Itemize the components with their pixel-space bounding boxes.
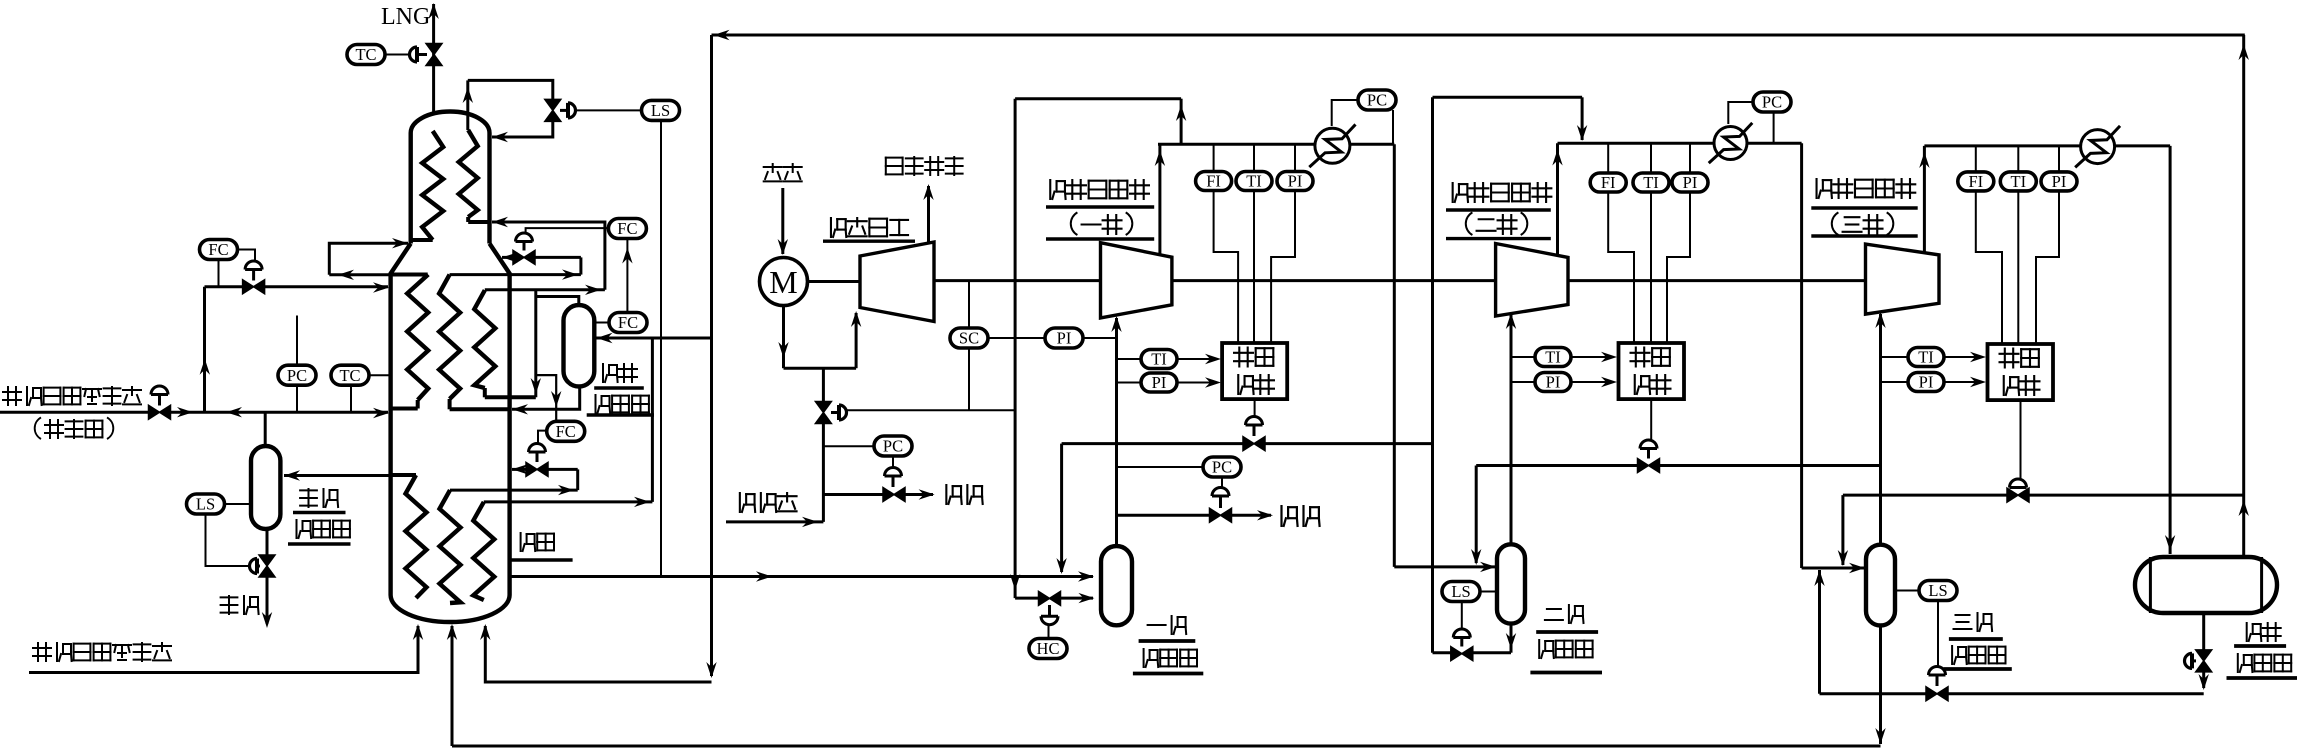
instrument bubble PI (suction1) — [1117, 382, 1142, 384]
svg-text:PI: PI — [1288, 172, 1303, 191]
vessel: refrigerant separator drum (right) — [2135, 557, 2277, 613]
wire: LS to drain valve — [206, 514, 251, 566]
text: right drum label — [2247, 623, 2262, 641]
vessel: 2nd stage separator drum2 — [1497, 544, 1525, 623]
wire: bottom right coil to refrigerant separator riser — [484, 500, 653, 503]
valve: startup FC valve — [245, 261, 262, 270]
wire: motor air loop down to turbine inlet — [782, 306, 785, 369]
text: heavy HC label — [221, 596, 238, 614]
wire: drum3 bottoms to bottom return line — [1879, 626, 1882, 745]
text: drum3 label — [1954, 615, 1972, 629]
wire: vapor return from column to separator — [284, 474, 391, 477]
wire: refrigerant separator drain — [512, 387, 580, 410]
wire: top coil vapor to LS valve loop — [466, 80, 469, 130]
coil: middle section left — [392, 273, 428, 277]
anti-surge control box stage1 — [1222, 343, 1287, 399]
wire: LS valve return into dome — [492, 120, 553, 137]
svg-text:LS: LS — [196, 495, 215, 514]
svg-text:PI: PI — [1683, 173, 1698, 192]
svg-text:LNG: LNG — [381, 4, 430, 30]
coil: top section left — [422, 131, 443, 240]
svg-text:FC: FC — [556, 422, 576, 441]
wire: main shaft turbine to C1 — [934, 279, 1101, 282]
wire: FC valve line to startup riser — [205, 285, 244, 288]
instrument bubble FC (refrigerant separator) — [609, 313, 647, 333]
vessel: refrigerant separator (left) — [564, 305, 595, 387]
wire: recycle drop to drum1 feed — [1060, 444, 1063, 572]
text: flare label (fuel) — [946, 485, 961, 504]
wire: FC to valve actuator — [538, 431, 547, 443]
wire: TC stubs — [368, 374, 391, 376]
wire: air inlet — [781, 188, 784, 254]
text: flare label (stage1) — [1282, 506, 1298, 526]
wire: center coil recycle upper loop — [450, 273, 581, 276]
text: gas turbine label — [831, 218, 846, 237]
valve: anti-surge valve stage3 — [2020, 400, 2022, 479]
anti-surge control box stage3 — [1988, 344, 2054, 400]
text: purified natural gas (startup) label — [3, 387, 21, 405]
wire: anti-surge recycle line stage2 — [1476, 464, 1638, 467]
wire: recycle drop to drum3 feed — [1841, 495, 1844, 565]
wire: LNG outlet riser — [432, 4, 435, 113]
svg-text:HC: HC — [1037, 639, 1060, 658]
svg-text:TI: TI — [1151, 350, 1167, 369]
wire: stage2 discharge header — [1558, 142, 1715, 145]
wire: bottom natural gas feed — [29, 626, 418, 673]
wire: header3 drop to right drum — [2169, 146, 2172, 554]
wire: big recycle downcomer — [710, 35, 713, 676]
instrument bubble PC (stage1 discharge) — [1358, 90, 1396, 110]
wire: LS3 to valve actuator — [1937, 601, 1939, 667]
instrument bubble FC (top left) — [200, 240, 238, 260]
wire: suction riser drum1 to C1 — [1115, 318, 1118, 546]
text: refrigerant compressor stage1 label — [1050, 180, 1065, 199]
svg-text:PC: PC — [287, 366, 307, 385]
wire: right drum liquid line to drum3 feed — [1820, 692, 1927, 695]
svg-text:PC: PC — [1367, 91, 1387, 110]
svg-text:PC: PC — [1212, 458, 1232, 477]
svg-text:LS: LS — [1928, 581, 1947, 600]
instrument bubble LS (separator) — [187, 494, 225, 514]
compressor C3 trapezoid — [1866, 244, 1940, 314]
svg-text:TI: TI — [1918, 348, 1934, 367]
valve: anti-surge valve stage1 — [1254, 399, 1256, 417]
valve: separator drain valve — [255, 559, 259, 574]
wire: TI arrow to box — [1177, 358, 1212, 360]
wire: PC1 elbow to HX1 — [1332, 100, 1358, 126]
svg-text:PI: PI — [2052, 172, 2067, 191]
instrument bubble LS (drum3) — [1895, 590, 1920, 592]
wire: exhaust to waste heat recovery — [927, 186, 930, 242]
text: waste heat recovery label — [886, 158, 903, 175]
instrument bubble PI (suction2) — [1511, 381, 1535, 383]
wire: right mid coil loop into narrow section — [485, 288, 605, 291]
instrument bubble FC (upper right) — [608, 219, 646, 239]
instrument bubble TI (suction2) — [1511, 356, 1535, 358]
svg-text:FI: FI — [1968, 172, 1983, 191]
svg-text:TI: TI — [1545, 348, 1561, 367]
wire: stage3 discharge header — [1924, 144, 2081, 147]
wire: anti-surge recycle line stage3 — [1843, 494, 2008, 497]
wire: FI TI PI to anti-surge box — [1214, 191, 1239, 344]
svg-text:TC: TC — [339, 366, 360, 385]
text: purified natural gas (bottom feed) — [33, 643, 51, 661]
instrument bubble PI (shaft) — [987, 337, 1046, 339]
svg-text:PI: PI — [1152, 373, 1167, 392]
wire: C2 discharge riser — [1556, 143, 1559, 254]
instrument bubble PC (suction1 flare) — [1203, 457, 1241, 477]
svg-text:TI: TI — [1246, 172, 1262, 191]
wire: C1 discharge riser — [1158, 144, 1161, 254]
wire: stage1 discharge header — [1158, 143, 1316, 146]
wire: drum2 drain — [1510, 624, 1513, 653]
svg-text:PI: PI — [1546, 373, 1561, 392]
instrument bubble TC (feed line) — [331, 365, 369, 385]
wire: branch from loop down into refrigerant separator — [534, 290, 537, 398]
wire: return riser to top line — [2242, 35, 2245, 557]
wire: interstage into drum2 — [1394, 565, 1495, 568]
text: cold box label — [521, 533, 536, 551]
wire: bottom center coil loop — [450, 489, 578, 492]
wire: bottom liquid return line — [452, 745, 1881, 748]
coil: bottom section right — [473, 502, 494, 600]
instrument bubble TI (suction1) — [1117, 358, 1142, 360]
motor M circle — [760, 258, 808, 306]
wire: recycle drop to drum2 feed — [1475, 466, 1478, 564]
wire: FI TI PI to anti-surge box stage2 — [1608, 192, 1634, 343]
wire: motor-turbine shaft — [808, 280, 861, 283]
text: refrigerant compressor stage2 label — [1453, 183, 1468, 202]
heat exchanger HX3 — [2081, 130, 2115, 164]
svg-text:TC: TC — [355, 45, 376, 64]
wire: feed line to column — [170, 411, 388, 414]
wire: suction riser drum3 to C3 — [1879, 314, 1882, 545]
heat exchanger HX2 — [1714, 127, 1747, 160]
wire: FC bubble lower stub — [218, 260, 220, 287]
svg-text:FC: FC — [617, 219, 637, 238]
instrument bubble PC (fuel) — [874, 436, 912, 456]
wire: PC1 to header corner — [1392, 110, 1394, 144]
wire: PC2 elbow to HX2 — [1728, 102, 1753, 124]
instrument bubble TC (LNG) — [385, 54, 409, 56]
compressor C1 trapezoid — [1101, 243, 1172, 318]
svg-text:PC: PC — [1762, 93, 1782, 112]
coil: middle section center — [439, 275, 460, 399]
wire: FC signal from lower FC — [626, 239, 628, 314]
text: drum1 label — [1148, 624, 1166, 626]
valve: fuel gas valve with SC actuator — [815, 402, 831, 413]
text: air label — [764, 164, 782, 181]
wire: refrigerant separator inlet from loop — [597, 337, 712, 340]
wire: jog to FC flow tap — [536, 375, 556, 422]
anti-surge control box stage2 — [1619, 343, 1685, 399]
wire: LS dip line down to cold box outlet line — [660, 121, 662, 577]
wire: recycle out top-left corner of wide section — [329, 273, 390, 276]
instrument bubble SC (speed) — [968, 281, 970, 328]
instrument bubble TI (suction3) — [1881, 356, 1909, 358]
svg-text:SC: SC — [959, 329, 979, 348]
wire: left riser of cross-loop / drum2 drain riser — [1431, 97, 1434, 652]
wire: interstage into drum3 — [1802, 567, 1865, 570]
wire: anti-surge recycle line stage1 — [1062, 442, 1244, 445]
svg-text:LS: LS — [651, 101, 670, 120]
coil: bottom section center — [440, 490, 461, 603]
wire: C3 discharge riser — [1923, 146, 1926, 253]
text: drum2 label — [1545, 609, 1563, 620]
wire: header riser down to interstage line — [1393, 144, 1396, 567]
svg-text:FI: FI — [1601, 173, 1616, 192]
text: separator label — [300, 489, 317, 507]
instrument bubble FC (cold box bottom) — [547, 421, 585, 441]
svg-text:FI: FI — [1206, 172, 1221, 191]
svg-text:FC: FC — [208, 240, 228, 259]
wire: startup riser — [203, 287, 206, 413]
instrument bubble LS (drum2) — [1480, 591, 1497, 593]
instrument bubble LS (cold box top) — [642, 100, 680, 120]
heat exchanger HX1 — [1315, 128, 1350, 163]
wire: PI arrow to box — [1177, 382, 1212, 384]
wire: cold box outlet to 1st stage separator — [510, 575, 1093, 578]
svg-text:FC: FC — [618, 313, 638, 332]
instrument bubble PI (suction3) — [1881, 381, 1909, 383]
valve: right drum drain valve — [2202, 613, 2205, 650]
text: refrigerant compressor stage3 label — [1817, 179, 1832, 198]
wire: PC2 stub to header2 — [1773, 112, 1775, 144]
compressor C2 trapezoid — [1496, 244, 1568, 317]
vessel: cold box column shell — [411, 112, 490, 244]
wire: PC stubs — [296, 316, 298, 366]
vessel: 1st stage separator drum1 — [1101, 546, 1132, 625]
instrument bubbles FI TI PI stage2 — [1607, 143, 1609, 173]
valve: FC recycle valve (mid) — [534, 256, 581, 259]
turbine trapezoid — [860, 242, 934, 322]
coil: top section right — [459, 130, 478, 217]
wire: anti-surge takeoff riser and top loop — [1180, 99, 1183, 145]
wire: SC signal to fuel valve — [847, 409, 1016, 411]
svg-text:LS: LS — [1451, 582, 1470, 601]
wire: LS2 to drain valve — [1461, 602, 1463, 630]
wire: FI TI PI to anti-surge box stage3 — [1976, 191, 2002, 344]
wire: FC valve outlet into column — [264, 285, 388, 288]
wire: suction riser drum2 to C2 — [1510, 315, 1513, 544]
valve: LS loop valve — [545, 99, 561, 110]
wire: fuel riser — [822, 423, 825, 522]
wire: header2 drop to drum3 feed — [1800, 143, 1803, 568]
coil: bottom section left — [406, 475, 427, 598]
svg-text:TI: TI — [2011, 172, 2027, 191]
valve: LNG control valve with TC — [426, 44, 442, 55]
wire: big recycle top line — [712, 34, 2245, 37]
wire: fuel gas line — [726, 520, 823, 523]
svg-text:PI: PI — [1919, 373, 1934, 392]
valve: bottom recycle FC valve — [529, 444, 546, 452]
svg-text:PI: PI — [1057, 329, 1072, 348]
wire: anti-surge drop to HC valve — [1014, 99, 1017, 598]
wire: separator bottoms drain — [266, 529, 269, 556]
wire: main startup feed line — [0, 411, 149, 414]
text: fuel gas label — [740, 493, 755, 512]
svg-text:TI: TI — [1643, 173, 1659, 192]
vessel: 3rd stage separator drum3 — [1866, 545, 1895, 626]
wire: riser back into narrow section — [329, 243, 408, 275]
valve: right drum liquid valve (LS3) — [1926, 687, 1937, 701]
coil: middle section right — [474, 290, 495, 388]
instrument bubble PC (feed line) — [278, 365, 316, 385]
wire: shaft C1 to C2 — [1172, 279, 1496, 282]
svg-text:M: M — [769, 264, 797, 300]
instrument bubble HC — [1029, 639, 1067, 659]
svg-text:PC: PC — [883, 437, 903, 456]
wire: cross-loop from recycle1 up and into header2 — [1433, 96, 1583, 99]
valve: suction1 flare valve — [1221, 477, 1223, 488]
valve: fuel flare valve — [892, 456, 894, 468]
valve: anti-surge valve stage2 — [1650, 399, 1652, 440]
wire: valve to LS bubble — [576, 109, 642, 111]
vessel: heavy hydrocarbon separator — [264, 412, 267, 446]
valve: inlet valve — [151, 386, 168, 395]
instrument bubbles FI TI PI stage3 — [1975, 146, 1977, 172]
wire: FC to valve actuator — [526, 228, 609, 232]
wire: FC to valve actuator — [238, 250, 256, 263]
valve: HC recycle valve — [1015, 597, 1038, 600]
instrument bubbles FI TI PI stage1 — [1213, 144, 1215, 171]
valve: drum2 drain valve — [1451, 647, 1462, 661]
text: refrigerant separator label — [603, 364, 618, 382]
wire: shaft C2 to C3 — [1568, 279, 1866, 282]
instrument bubble PC (stage2 discharge) — [1753, 92, 1791, 112]
